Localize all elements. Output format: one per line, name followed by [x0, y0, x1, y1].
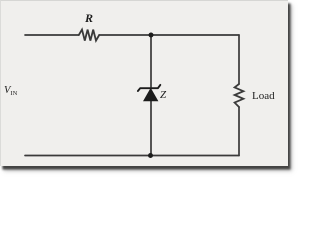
junction node top: [149, 33, 154, 38]
resistor R: [79, 30, 99, 41]
wire: right vertical branch: [238, 35, 240, 156]
schematic card: [0, 0, 288, 166]
svg-text:VIN: VIN: [4, 85, 18, 97]
wire: zener branch vertical: [150, 35, 152, 156]
resistor Load: [235, 84, 244, 107]
wire: top rail from Vin to right corner: [25, 34, 239, 36]
svg-text:R: R: [84, 11, 93, 25]
svg-text:Z: Z: [160, 89, 167, 101]
zener diode Z: [138, 85, 160, 101]
junction node bottom: [148, 153, 153, 158]
svg-text:Load: Load: [252, 90, 275, 102]
wire: bottom rail: [25, 155, 239, 157]
